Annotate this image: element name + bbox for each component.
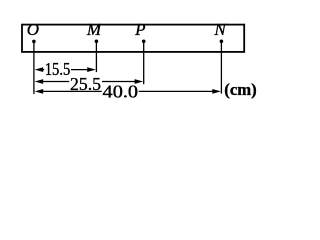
dimension arrow 40.0 right head	[139, 89, 221, 94]
svg-text:40.0: 40.0	[103, 82, 139, 102]
wire: M vertical leader line	[95, 41, 97, 72]
dimension arrow 40.0 left head	[35, 89, 102, 94]
dimension arrow 25.5 right head	[102, 79, 143, 84]
svg-text:(cm): (cm)	[224, 80, 256, 99]
label P	[134, 20, 145, 39]
value label 25.5	[70, 74, 101, 94]
value label 15.5	[45, 59, 71, 79]
dimension arrow 15.5 left head	[35, 67, 45, 72]
svg-text:N: N	[213, 20, 227, 39]
svg-text:O: O	[27, 20, 39, 39]
label N	[213, 20, 227, 39]
svg-text:15.5: 15.5	[45, 59, 71, 79]
svg-text:P: P	[134, 20, 145, 39]
label O	[27, 20, 39, 39]
value label 40.0	[103, 82, 139, 102]
node dot M	[95, 40, 99, 44]
node dot N	[220, 40, 224, 44]
node dot O	[32, 40, 36, 44]
node dot P	[142, 40, 146, 44]
wire: P vertical leader line	[143, 41, 145, 84]
wire: O vertical leader line	[33, 41, 35, 94]
dimension arrow 15.5 right head	[71, 67, 96, 72]
dimension arrow 25.5 left head	[35, 79, 70, 84]
label M	[86, 20, 102, 39]
svg-text:M: M	[86, 20, 102, 39]
box (tape outline)	[22, 25, 244, 52]
wire: N vertical leader line	[220, 41, 222, 93]
unit label (cm)	[224, 80, 256, 99]
